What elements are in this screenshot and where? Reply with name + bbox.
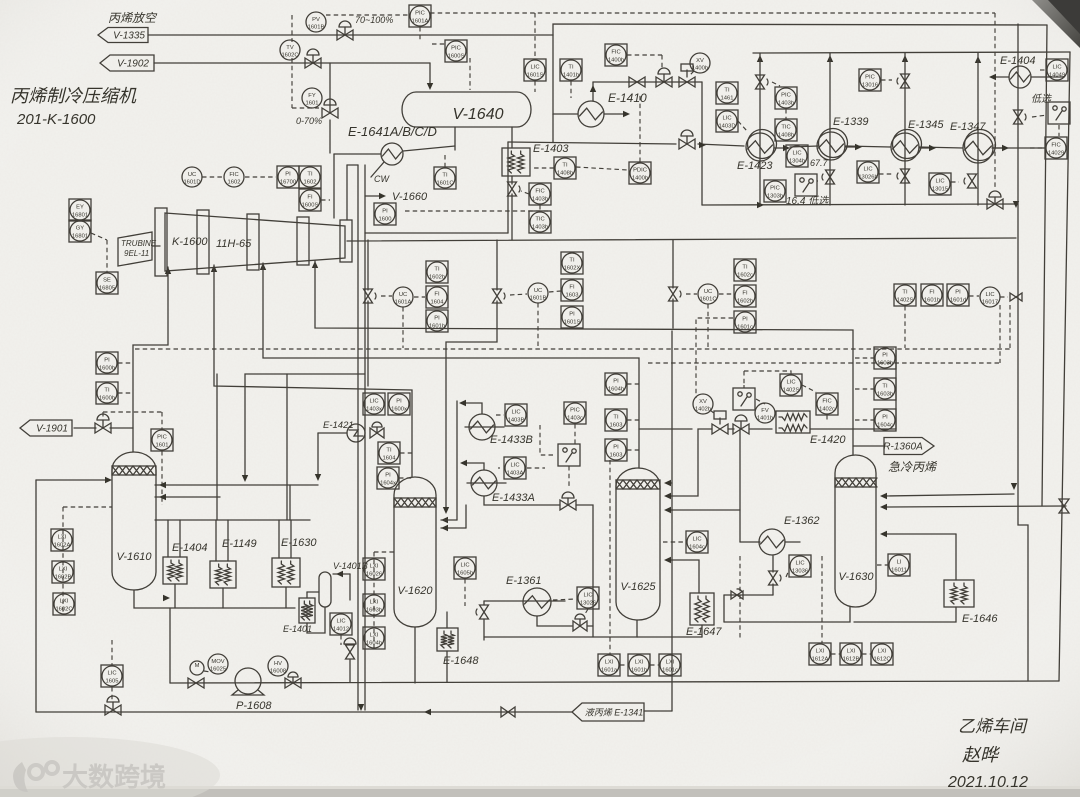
signal UC to stack — [549, 291, 561, 292]
signal to LIC-1605 — [111, 640, 113, 665]
svg-text:LIC: LIC — [692, 537, 701, 543]
pipe to bottoms line — [349, 660, 351, 682]
pipe flag to riser — [644, 710, 672, 712]
instrument FIC-1403b — [529, 183, 551, 205]
pipe vent header to right — [553, 24, 1047, 35]
svg-text:急冷丙烯: 急冷丙烯 — [888, 460, 938, 474]
valve antisurge 1 — [364, 289, 373, 303]
svg-text:1602C: 1602C — [55, 607, 72, 613]
instrument FIC-14029 — [1045, 137, 1067, 159]
pipe E-1421 outlet to V-1610 — [317, 433, 319, 478]
signal UC to stack — [414, 296, 425, 298]
instrument FV-1401b — [755, 403, 775, 423]
svg-text:1400b: 1400b — [608, 58, 624, 64]
svg-text:14029: 14029 — [1048, 151, 1064, 157]
svg-text:1603: 1603 — [610, 423, 623, 429]
svg-text:1600x: 1600x — [391, 407, 407, 413]
instrument LIC-1605b — [454, 557, 476, 579]
svg-text:PIC: PIC — [770, 186, 780, 192]
signal up — [743, 385, 745, 388]
svg-text:LIC: LIC — [583, 593, 592, 599]
svg-text:1601c: 1601c — [662, 668, 678, 674]
instrument LI-16011 — [888, 554, 910, 576]
arrow down into riser — [1013, 201, 1019, 208]
instrument LIC-16017 — [980, 287, 1000, 307]
pipe E-1433A liquid out — [484, 496, 560, 505]
svg-text:11H-65: 11H-65 — [216, 238, 252, 250]
svg-text:67.7: 67.7 — [810, 158, 829, 168]
pipe E-1641 liquid column (long vertical pair) — [357, 165, 359, 710]
svg-text:PI: PI — [285, 172, 291, 178]
arrow recycle into V-1620 — [443, 507, 449, 514]
signal dashed leg — [739, 556, 741, 640]
pipe E-1630 vapor stub 2 — [290, 520, 292, 558]
level bridle V-1630 — [821, 556, 823, 643]
pipe E-1404 stub left — [991, 76, 1009, 78]
instrument PIC-1601 — [151, 429, 173, 451]
svg-text:丙烯放空: 丙烯放空 — [108, 11, 158, 25]
signal bridle V-1625 — [609, 460, 611, 655]
pipe E-1149 drain — [222, 588, 224, 608]
instrument TI-1602 — [299, 166, 321, 188]
valve stem — [376, 427, 378, 433]
svg-text:LIC: LIC — [985, 292, 994, 298]
svg-text:LXI: LXI — [60, 599, 69, 605]
instrument LXI-16026 — [363, 558, 385, 580]
instrument TI-1461 — [716, 82, 738, 104]
pipe E-1341 liquid riser — [671, 331, 673, 711]
svg-text:16026: 16026 — [366, 572, 382, 578]
pipe into V-1640 top — [429, 63, 431, 84]
pipe hot-gas bypass to E-1641 — [329, 63, 331, 105]
level bridle top — [374, 551, 394, 553]
pipe suction stage 1 from V-1610 — [133, 267, 168, 452]
svg-text:1604: 1604 — [431, 300, 445, 306]
pipe discharge riser 2 — [346, 165, 348, 220]
arrow into V-1630 3 — [880, 531, 887, 537]
positioner PV-1601B — [306, 12, 326, 32]
instrument LIC-1605 — [101, 665, 123, 687]
pipe V-1625 top feed — [667, 482, 672, 484]
svg-text:1601A: 1601A — [395, 300, 412, 306]
signal FIC to E-1420 — [826, 415, 828, 420]
pipe left riser — [35, 480, 37, 712]
arrow E-1421 feed down — [315, 474, 321, 481]
instrument GY-16801 — [69, 220, 91, 242]
svg-text:16025: 16025 — [210, 667, 226, 673]
cooler E-1362 — [759, 529, 785, 555]
pipe bank bottom header — [702, 204, 1016, 205]
arrow into V-1640 top — [427, 83, 433, 90]
svg-text:1601S: 1601S — [527, 73, 544, 79]
signal to LIC — [1040, 69, 1046, 71]
control valve TV-1602C on V-1902 line — [305, 58, 321, 68]
chiller E-1630 — [272, 558, 300, 587]
pipe to V-1630 upper feed — [884, 494, 1014, 496]
svg-text:UC: UC — [188, 172, 196, 178]
instrument LIC-1604c — [686, 531, 708, 553]
instrument HV-16008 — [268, 656, 288, 676]
pipe discharge header — [347, 238, 1016, 241]
pipe V-1902 line — [154, 62, 430, 64]
svg-text:1603b: 1603b — [877, 392, 893, 398]
signal GY to turbine — [91, 233, 107, 240]
signal link — [432, 43, 447, 45]
instrument TI-1604 — [378, 442, 400, 464]
signal UC-1601B to header — [537, 303, 539, 348]
svg-text:LXI: LXI — [635, 660, 644, 666]
svg-text:UC: UC — [399, 292, 407, 298]
instrument LIC-13026b — [857, 161, 879, 183]
instrument PIC-1403b — [775, 87, 797, 109]
signal TIC to FIC — [539, 205, 541, 211]
svg-text:1602C: 1602C — [281, 53, 298, 59]
svg-text:LXI: LXI — [370, 633, 379, 639]
control valve V-1401B bottoms — [346, 645, 355, 659]
signal TI to pipe — [855, 388, 874, 390]
pipe chiller top header — [155, 519, 310, 521]
vent condenser E-1404 — [1009, 66, 1031, 88]
svg-text:PI: PI — [955, 290, 961, 296]
instrument UC-1601A — [393, 287, 413, 307]
svg-text:1401b: 1401b — [563, 73, 579, 79]
instrument TI-1602c — [734, 259, 756, 281]
instrument FIC-1402c — [816, 393, 838, 415]
pipe bank top header — [753, 52, 1070, 53]
instrument LXI-1603b — [363, 594, 385, 616]
pipe E-1410 discharge line — [593, 81, 702, 83]
control valve under LIC-13026 — [573, 621, 587, 631]
svg-text:UC: UC — [704, 289, 712, 295]
instrument LXI-1604b — [363, 627, 385, 649]
svg-text:1603b: 1603b — [366, 608, 382, 614]
svg-text:LIC: LIC — [795, 561, 804, 567]
svg-text:PI: PI — [396, 399, 402, 405]
pipe E-1404 vapor — [167, 520, 169, 557]
pipe E-1641 liquid to V-1610 — [245, 374, 365, 478]
svg-text:TI: TI — [562, 163, 568, 169]
instrument PI-1601d — [947, 284, 969, 306]
instrument LIC-13015 — [929, 173, 951, 195]
svg-text:LXI: LXI — [847, 649, 856, 655]
instrument FIC-1400b — [605, 44, 627, 66]
signal PIC-1601A to PIC-1600S — [419, 27, 421, 40]
chiller E-1433A — [471, 470, 497, 496]
svg-text:LIC: LIC — [460, 563, 469, 569]
svg-text:LXI: LXI — [605, 660, 614, 666]
signal turbine to SE — [106, 240, 108, 272]
svg-text:13026b: 13026b — [858, 175, 877, 181]
arrow in drain header — [163, 595, 170, 601]
instrument TI-1602b — [426, 261, 448, 283]
instrument LIC-13036 — [789, 555, 811, 577]
instrument LXI-1602C — [53, 593, 75, 615]
svg-text:E-1345: E-1345 — [908, 119, 944, 131]
signal link — [620, 664, 628, 666]
vessel V-1401B — [319, 572, 331, 607]
svg-text:1402S: 1402S — [783, 388, 800, 394]
pipe V-1630 bottoms — [724, 607, 850, 622]
chiller E-1149 — [210, 561, 236, 588]
arrow down from riser — [1011, 483, 1017, 490]
svg-text:1601a: 1601a — [601, 668, 618, 674]
pipe stub right 3 — [919, 147, 932, 149]
svg-text:LIC: LIC — [530, 65, 539, 71]
svg-text:1601d: 1601d — [950, 298, 966, 304]
signal valve to UC-1601A — [381, 295, 392, 297]
signal dashed from stack to XV — [696, 318, 733, 398]
signal PIC-1600S to V-1640 — [469, 58, 471, 90]
svg-text:1602b: 1602b — [429, 275, 445, 281]
condenser vertical 1 — [759, 53, 761, 205]
signal FIC-1400b to valve — [627, 54, 662, 56]
control valve E-1433A outlet — [560, 500, 576, 510]
instrument PI-1601S — [561, 306, 583, 328]
pipe E-1648 drain — [446, 651, 448, 682]
pipe V-1630 second feed — [884, 506, 1066, 507]
instrument LXI-1612A — [809, 643, 831, 665]
signal LIC to valve — [464, 579, 466, 606]
vessel V-1620 — [394, 477, 436, 627]
svg-text:E-1404: E-1404 — [1000, 55, 1035, 67]
pipe suction stage 3 to V-1625 — [263, 263, 639, 468]
signal PI to LIC — [969, 295, 979, 297]
svg-text:1605b: 1605b — [457, 571, 473, 577]
svg-text:201-K-1600: 201-K-1600 — [16, 111, 96, 128]
svg-text:E-1420: E-1420 — [810, 434, 846, 446]
arrow E-1433B vapor — [459, 400, 466, 406]
valve under E-1362 — [772, 556, 774, 572]
arrow right 3 — [929, 145, 936, 151]
svg-text:PV: PV — [312, 17, 320, 23]
arrow up 4 — [975, 56, 981, 63]
instrument PI-1600x — [388, 393, 410, 415]
instrument TI-1601C — [434, 167, 456, 189]
svg-text:1602b: 1602b — [737, 299, 753, 305]
cooling water line CW — [371, 162, 384, 177]
signal LIC-1403B to E-1433B — [496, 414, 504, 416]
arrow right 1 — [783, 145, 790, 151]
pipe valve outlet — [588, 625, 593, 627]
pipe link — [347, 164, 358, 166]
signal riser right — [1009, 305, 1011, 349]
arrow product flow — [424, 709, 431, 715]
svg-text:UC: UC — [534, 288, 542, 294]
arrow into V-1625 4 — [664, 557, 671, 563]
svg-text:E-1404: E-1404 — [172, 542, 207, 554]
signal to valve — [102, 412, 104, 420]
svg-text:PIC: PIC — [570, 408, 580, 414]
signal LIC to drum — [534, 81, 536, 92]
svg-text:TI: TI — [724, 88, 730, 94]
pipe V-1640 bottom to E-1403 — [511, 127, 513, 148]
svg-text:TI: TI — [882, 384, 888, 390]
svg-text:TV: TV — [286, 45, 294, 51]
valve with side actuator on riser 4 — [968, 174, 977, 188]
instrument LIC-1304b — [786, 145, 808, 167]
svg-text:9EL-11: 9EL-11 — [124, 249, 149, 258]
svg-text:1602X: 1602X — [564, 266, 581, 272]
pipe to V-1625 bottoms header — [576, 505, 593, 637]
instrument TIC-1403b — [529, 211, 551, 233]
svg-text:1602A: 1602A — [54, 543, 71, 549]
svg-text:TI: TI — [307, 172, 313, 178]
svg-text:PI: PI — [385, 473, 391, 479]
valve antisurge 2 — [493, 289, 502, 303]
pipe V-1901 line 2 — [110, 427, 133, 429]
instrument PDIC-1400b — [629, 162, 651, 184]
pipe link — [724, 594, 773, 596]
svg-text:1602: 1602 — [228, 180, 241, 186]
signal to LIC — [553, 599, 576, 600]
svg-text:R-1360A: R-1360A — [883, 442, 923, 453]
svg-text:FV: FV — [761, 408, 769, 414]
condenser E-1641 — [381, 143, 403, 165]
pipe pump suction header — [169, 608, 171, 683]
arrow into V-1610 wall 2 — [159, 494, 166, 500]
pipe enclosure bottom — [365, 232, 508, 234]
pipe E-1646 vapor return — [884, 533, 956, 535]
pipe bank link 2 — [846, 146, 891, 147]
svg-text:1401b: 1401b — [757, 416, 773, 422]
instrument PI-1604b — [605, 373, 627, 395]
control valve PV-1601B on vent line — [337, 30, 353, 40]
arrow into V-1630 2 — [880, 504, 887, 510]
svg-text:16017: 16017 — [982, 300, 998, 306]
instrument FI-1604 — [426, 286, 448, 308]
signal PDIC up to valves — [639, 95, 641, 162]
svg-text:TIC: TIC — [781, 125, 790, 131]
svg-text:LXI: LXI — [59, 567, 68, 573]
instrument PI-1601b — [426, 310, 448, 332]
signal LIC to E-1423 — [738, 121, 747, 131]
svg-text:E-1646: E-1646 — [962, 613, 998, 625]
signal to selector — [1032, 115, 1047, 117]
svg-text:1601: 1601 — [306, 101, 319, 107]
valve on vent riser with side actuator — [1014, 110, 1023, 124]
svg-text:1600S: 1600S — [302, 203, 319, 209]
pipe E-1410 vapor up — [592, 82, 594, 101]
signal PI to pipe 2 — [627, 449, 639, 451]
pipe E-1404 drain — [174, 584, 176, 608]
svg-text:LIC: LIC — [1052, 65, 1061, 71]
svg-text:1461: 1461 — [721, 96, 734, 102]
signal TI-1408b to E-1403 — [532, 167, 554, 169]
pipe vent riser right — [1018, 62, 1028, 681]
svg-text:V-1610: V-1610 — [116, 551, 152, 563]
svg-text:HV: HV — [274, 661, 282, 667]
stem — [994, 197, 996, 204]
svg-text:LIC: LIC — [863, 167, 872, 173]
signal LIC to valve — [340, 635, 342, 645]
svg-text:PIC: PIC — [157, 435, 167, 441]
reboiler E-1648 — [437, 628, 458, 651]
svg-text:16.4 低选: 16.4 低选 — [786, 195, 829, 207]
valve with side actuator on riser 3 — [901, 169, 910, 183]
svg-text:LIC: LIC — [935, 179, 944, 185]
signal LIC to valve — [1000, 296, 1008, 298]
pipe compressor discharge to E-1641 — [334, 153, 381, 155]
turbine box TRUBINE 9EL-11 — [118, 232, 157, 266]
svg-text:1601b: 1601b — [631, 668, 647, 674]
instrument TI-1603 — [605, 409, 627, 431]
arrow into V-1625 2 — [664, 507, 671, 513]
svg-text:液丙烯 E-1341: 液丙烯 E-1341 — [585, 708, 644, 718]
pipe E-1403 to discharge header — [511, 194, 513, 240]
watermark logo — [13, 762, 58, 792]
svg-text:PI: PI — [569, 312, 575, 318]
pipe feed to E-1630 — [286, 374, 288, 520]
signal long dashed right — [648, 362, 1000, 364]
svg-text:LXI: LXI — [666, 660, 675, 666]
control valve FY-1601 bypass — [322, 108, 338, 118]
svg-text:13036: 13036 — [792, 569, 808, 575]
signal LIC riser — [744, 371, 791, 374]
svg-text:PIC: PIC — [781, 93, 791, 99]
svg-text:PI: PI — [104, 358, 110, 364]
valve below E-1403 — [508, 182, 517, 196]
svg-text:1600b: 1600b — [99, 396, 115, 402]
pipe V-1610 left feed — [36, 479, 108, 481]
pipe V-1610 bottoms header — [134, 590, 295, 608]
signal riser to LIC row — [999, 305, 1001, 363]
instrument SE-16805 — [96, 272, 118, 294]
svg-text:16805: 16805 — [99, 286, 115, 292]
signal FIC to valve — [521, 191, 529, 194]
svg-text:FIC: FIC — [535, 189, 544, 195]
control valve XV-1400 with piston actuator — [679, 77, 695, 87]
signal LIC-1601S to valve — [994, 13, 996, 190]
svg-text:1403b: 1403b — [778, 101, 794, 107]
svg-text:LIC: LIC — [336, 619, 345, 625]
signal LIC-1403B to selector — [540, 425, 556, 455]
top dashed signal line — [430, 12, 995, 14]
signal LIC-1403A link — [527, 467, 545, 469]
svg-text:1403c: 1403c — [567, 416, 583, 422]
signal TI to pipe — [627, 419, 639, 421]
svg-text:1604c: 1604c — [877, 423, 893, 429]
tag V-1335 — [98, 28, 148, 43]
pipe E-1647 vapor return — [667, 560, 699, 593]
arrow up 2 — [827, 55, 833, 62]
pipe through E-1433A — [467, 482, 506, 484]
svg-text:PDIC: PDIC — [633, 168, 647, 174]
signal link — [831, 653, 840, 655]
svg-text:1601b: 1601b — [429, 324, 445, 330]
instrument LIC-1601S — [524, 59, 546, 81]
signal header (long dashed) — [135, 348, 1010, 350]
pipe E-1404 vapor 2 — [179, 520, 181, 557]
signal PI-1600 row — [405, 210, 550, 212]
stem — [292, 677, 294, 683]
svg-text:FIC: FIC — [229, 172, 238, 178]
svg-text:1603: 1603 — [610, 453, 623, 459]
svg-text:13015: 13015 — [932, 187, 948, 193]
instrument LIC-14049 — [1046, 59, 1068, 81]
svg-text:1612B: 1612B — [843, 657, 860, 663]
svg-text:TI: TI — [386, 448, 392, 454]
arrow into V-1610 wall — [159, 482, 166, 488]
signal LIC to valve — [951, 181, 959, 183]
svg-text:PI: PI — [882, 415, 888, 421]
pump P-1608 — [235, 668, 261, 694]
pipe down to exchanger bank header — [701, 82, 703, 205]
svg-text:16801: 16801 — [72, 213, 88, 219]
svg-text:FI: FI — [569, 285, 575, 291]
cooler E-1403 coil — [502, 148, 530, 176]
instrument XV-1402b — [693, 394, 713, 414]
instrument UC-1601D — [182, 167, 202, 187]
